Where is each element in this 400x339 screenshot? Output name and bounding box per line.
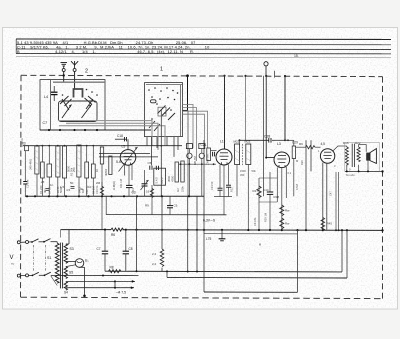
coil 10	[109, 156, 112, 175]
fm trimmer oval	[151, 100, 157, 103]
small link box	[158, 107, 166, 116]
output transformer core	[351, 144, 353, 167]
border wire to if can	[245, 76, 247, 141]
aerial symbol	[71, 61, 78, 66]
table left edge tick	[15, 39, 17, 53]
strip vertical labels	[29, 159, 117, 193]
pickup terminal O	[264, 62, 268, 66]
avc rail under trimmers	[179, 163, 216, 165]
series cap a	[149, 166, 151, 170]
mains wire top	[20, 241, 25, 243]
coil can 6	[77, 145, 81, 177]
rail 1 return leg	[341, 230, 343, 272]
heater wire 2	[66, 287, 69, 289]
pickup wire down	[265, 76, 267, 158]
grid stopper resistor R14	[296, 146, 306, 148]
trimmer cap	[144, 170, 146, 184]
switch blade 2	[44, 239, 51, 242]
switch linkage dash-dot b	[45, 245, 47, 272]
C3 cathode cap	[126, 184, 133, 186]
strip value labels row 2	[26, 179, 185, 194]
fm output elbows to if cans	[183, 105, 208, 162]
HT bottom tap to rectifier	[66, 261, 76, 263]
V2 input cap	[212, 152, 214, 157]
cluster labels near V2 V3	[210, 159, 304, 226]
tube V2 electrodes	[220, 153, 229, 165]
parts table top rule	[16, 38, 391, 40]
V3 pin wires	[276, 167, 278, 202]
can drop wires	[236, 165, 238, 197]
top rail junction dots	[36, 145, 162, 147]
bus junction dots	[48, 129, 98, 131]
af box	[154, 168, 166, 185]
gray link lines from box1 to waterfall	[59, 121, 165, 150]
cap unit 7	[85, 162, 89, 178]
long b+ drop wires	[305, 140, 307, 229]
V2 cathode caps	[218, 187, 223, 189]
gang arrow 1	[62, 105, 72, 119]
parts table rule 3	[16, 48, 391, 50]
rectifier output to ground point	[80, 266, 85, 268]
tuner box 1 outline	[40, 80, 105, 130]
rectifier U	[75, 259, 84, 268]
chassis dashed border left	[20, 75, 23, 297]
tube V1 diag arrow	[119, 147, 138, 172]
coupling capacitor left	[23, 181, 27, 183]
output return pair	[335, 172, 337, 230]
earth terminal	[62, 69, 65, 72]
aerial terminal	[73, 69, 76, 72]
gang pin dots	[86, 89, 88, 91]
bottom rail dots	[26, 195, 190, 197]
small value labels row	[41, 180, 101, 192]
parts table bottom rule	[16, 52, 391, 54]
detector line C28	[240, 139, 269, 141]
decoupling electrolytic C8	[125, 230, 127, 251]
output transformer secondary	[357, 147, 360, 162]
V1 pin wires	[124, 165, 126, 176]
short stub on border	[274, 71, 276, 78]
return box top edge	[204, 233, 298, 235]
capacitor L4 plates	[51, 91, 58, 93]
heater rail riser	[105, 196, 107, 214]
tiny cap marks row	[46, 187, 75, 191]
big U loop	[203, 140, 205, 292]
cap unit 3	[47, 164, 52, 177]
R8 in rail	[109, 270, 121, 273]
trimmer can A	[186, 144, 192, 149]
if transformer can right	[246, 144, 251, 165]
decoupling electrolytic C7	[104, 230, 106, 251]
fm coil diagonals	[149, 106, 175, 132]
V4 plate wire	[333, 146, 338, 151]
tuner box divider	[50, 80, 52, 130]
switch contact dots	[148, 87, 178, 120]
resistor rect mid	[175, 162, 179, 182]
tube V3 envelope	[274, 152, 290, 168]
fm box 2 outline	[145, 83, 183, 137]
wire to V2	[211, 150, 217, 152]
mains wire bottom	[20, 275, 25, 277]
resistor rect mid 2	[181, 161, 184, 182]
output tube cathode resistors	[280, 205, 284, 216]
lower blade 2	[45, 272, 51, 275]
pickup lead	[265, 66, 267, 76]
speaker ground line	[345, 170, 383, 172]
mains terminal L2	[26, 241, 29, 244]
lower blade 1	[33, 272, 39, 275]
tuner box 1 inner top shield line	[53, 81, 105, 83]
C18 cap	[124, 137, 126, 141]
mains terminal L1	[17, 241, 20, 244]
speaker return wire	[367, 160, 369, 171]
small parts under V1 cluster	[151, 185, 153, 215]
bowtie stator strokes	[60, 96, 96, 110]
coupling shield U	[74, 89, 83, 98]
coil can 4	[56, 146, 60, 177]
diagonal to transformer bottom	[51, 276, 57, 286]
heater secondary	[64, 282, 67, 291]
cap unit 8	[91, 164, 95, 178]
ground loop rail 1	[105, 270, 342, 273]
tube V2 envelope	[216, 149, 232, 165]
switch blade 1	[32, 239, 39, 242]
tube V4 envelope	[320, 149, 334, 163]
drop wires into loops	[136, 196, 138, 271]
bus junction dots	[104, 229, 384, 232]
transformer core	[59, 243, 61, 289]
extra tiny marks around output stage	[318, 149, 351, 196]
V4 pin wires	[322, 163, 324, 230]
coil 9	[100, 147, 103, 164]
junction on border	[186, 74, 189, 77]
chassis dashed border right	[382, 77, 384, 299]
output grid wire from border	[284, 76, 286, 141]
grid cap wire	[127, 139, 129, 149]
if strip top rail	[23, 145, 182, 147]
gang arrow 2	[82, 105, 92, 119]
transformer bottom wires	[346, 166, 348, 172]
heater wire 1	[66, 281, 69, 283]
tube V1 envelope	[120, 150, 136, 166]
V2 pin wires	[219, 165, 221, 188]
squiggle mark	[259, 244, 261, 246]
tuning gang rounded frame	[59, 101, 98, 122]
ground loop rail 2	[167, 276, 347, 279]
resistor can 2	[41, 162, 45, 178]
resistor R6 in bus	[111, 228, 123, 231]
secondary top wire to speaker	[358, 144, 360, 147]
switch linkage dash-dot a	[33, 245, 35, 272]
tube V1 electrodes	[124, 153, 133, 165]
output transformer primary	[345, 146, 348, 166]
coil can 1	[35, 146, 39, 174]
trimmer can B	[199, 144, 205, 149]
bias tap wire	[66, 265, 76, 267]
fm box inner double lines	[146, 84, 183, 86]
earth border junction	[63, 74, 65, 76]
earth symbol	[61, 63, 68, 67]
coil can 5	[62, 146, 66, 178]
left feed wire	[24, 151, 26, 182]
table extra short rule right	[16, 57, 391, 58]
resistor R3	[25, 146, 29, 151]
main coil bus under box1	[40, 129, 151, 131]
tube V2 input resistor	[207, 148, 211, 161]
mains terminal lower 2	[26, 274, 29, 277]
if strip bottom rail	[25, 195, 204, 197]
heater cross link	[114, 281, 116, 287]
parts table rule 2	[16, 43, 391, 45]
series cap b	[155, 166, 157, 170]
earth lead wire	[63, 66, 65, 68]
chassis dashed border top	[21, 75, 383, 76]
strip mid rail a	[99, 152, 150, 154]
power transformer primary winding	[55, 243, 59, 283]
if transformer can left	[235, 144, 240, 165]
bias secondary	[64, 267, 67, 279]
aerial lead into tuner box	[74, 66, 76, 69]
if transformer core	[242, 144, 244, 165]
B+ bus	[61, 229, 112, 231]
mains terminal lower 1	[17, 274, 20, 277]
tube V4 electrodes	[323, 152, 331, 158]
chassis dashed border bottom	[21, 297, 383, 298]
vertical from rail to bus	[101, 196, 103, 229]
cathode network under V3	[258, 178, 260, 230]
output assembly light box	[345, 142, 379, 171]
wire from border to fm box	[187, 76, 189, 111]
heater rail 6.3V	[106, 214, 226, 216]
fm grid wire down to tube2	[224, 76, 226, 150]
chassis cap C75	[221, 230, 223, 239]
HT secondary	[64, 244, 67, 263]
speaker	[366, 153, 370, 161]
HT top tap to bus	[66, 243, 69, 245]
waterfall wires below fm box	[147, 110, 178, 196]
strip mid rail b	[99, 156, 158, 158]
long drop wire to if strip	[187, 110, 189, 196]
pilot line long	[51, 274, 139, 276]
extra strip labels	[70, 167, 100, 194]
avc line from border	[263, 76, 265, 197]
tube V3 electrodes	[277, 156, 286, 168]
